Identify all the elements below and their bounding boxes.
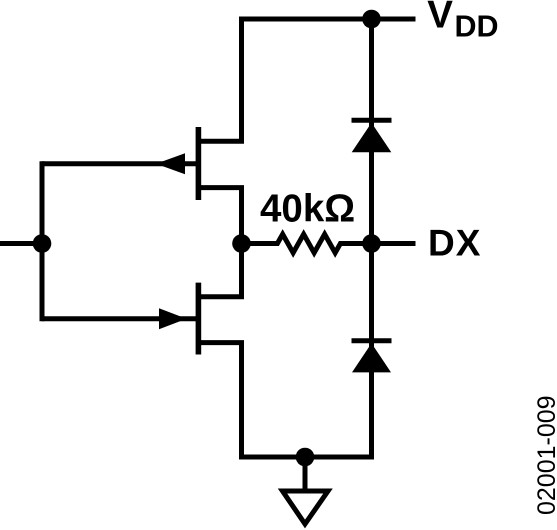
Q1 gate wire bbox=[42, 161, 198, 166]
node: DX left junction bbox=[232, 234, 251, 253]
svg-text:40kΩ: 40kΩ bbox=[260, 188, 355, 231]
wire: input stub bbox=[0, 241, 42, 246]
Q2 gate arrow (points right) bbox=[159, 308, 187, 329]
node: DX right junction bbox=[362, 234, 381, 253]
svg-text:DD: DD bbox=[455, 9, 499, 43]
Q1 channel bar bbox=[196, 127, 202, 200]
Q2 drain lead wire up to DX node bbox=[198, 244, 241, 297]
diode D2 cathode bar bbox=[352, 338, 392, 343]
wire: ground stub bbox=[303, 457, 308, 489]
diode D1 cathode bar bbox=[352, 118, 392, 123]
transistor Q1 (p-channel) bbox=[42, 20, 242, 244]
diode D1 (anode triangle, points up) bbox=[352, 123, 392, 153]
Q2 channel bar bbox=[196, 283, 202, 355]
wire: left vertical gate bus bbox=[40, 161, 45, 321]
node: ground junction bbox=[296, 448, 315, 467]
wire: DX stub to label bbox=[372, 241, 416, 246]
wire: bottom rail bbox=[239, 455, 374, 460]
node: VDD junction bbox=[362, 10, 381, 29]
node: input junction bbox=[33, 234, 52, 253]
svg-text:DX: DX bbox=[428, 222, 481, 263]
Q2 gate wire bbox=[42, 316, 198, 321]
wire: upper clamp branch (VDD rail to DX node) bbox=[369, 19, 374, 244]
svg-text:V: V bbox=[427, 0, 453, 36]
Q1 source lead wire to VDD rail bbox=[198, 20, 241, 141]
ground symbol bbox=[283, 491, 329, 524]
diode D2 (anode triangle, points up) bbox=[352, 343, 391, 372]
resistor R1 (40k ohm) bbox=[242, 234, 372, 253]
Q2 source lead wire down to bottom rail bbox=[198, 343, 241, 457]
svg-text:02001-009: 02001-009 bbox=[533, 395, 557, 515]
Q1 gate arrow (points left) bbox=[156, 153, 185, 174]
Q1 drain lead wire down to DX node bbox=[198, 188, 241, 244]
wire: lower clamp branch (DX node to bottom rail) bbox=[369, 244, 374, 458]
transistor Q2 (n-channel) bbox=[42, 244, 242, 458]
net label VDD bbox=[427, 0, 498, 43]
wire: VDD rail (top horizontal) bbox=[239, 17, 416, 22]
